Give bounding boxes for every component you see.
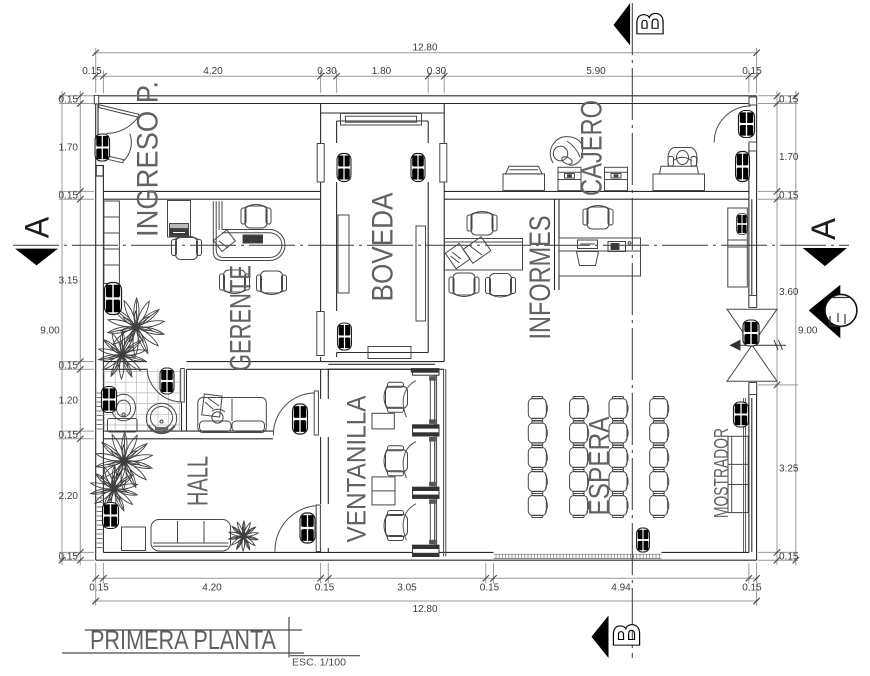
section line A: [13, 244, 849, 246]
svg-text:A: A: [19, 216, 57, 238]
teller counter vertical rails: [435, 369, 446, 557]
hall plant 2: [91, 465, 138, 513]
svg-text:3.25: 3.25: [779, 464, 799, 475]
cajero safe: [503, 166, 545, 190]
vault outer walls: [321, 104, 445, 362]
svg-text:0.15: 0.15: [59, 95, 79, 106]
teller counter blocks: [411, 369, 439, 557]
svg-text:CAJERO: CAJERO: [576, 100, 609, 196]
svg-text:ESPERA: ESPERA: [584, 416, 616, 516]
toilet: [108, 394, 138, 432]
hall plant right of sofa: [229, 521, 258, 551]
mostrador top symbol: [734, 402, 749, 427]
svg-text:0.15: 0.15: [59, 190, 79, 201]
svg-text:0.30: 0.30: [427, 66, 447, 77]
bowtie door (double swing): [727, 309, 777, 381]
hall right door symbol: [300, 513, 315, 543]
bowtie center symbol: [743, 320, 759, 346]
svg-text:0.15: 0.15: [315, 583, 335, 594]
teller privacy wings: [403, 381, 416, 541]
right wall cabinet: [728, 208, 748, 287]
svg-text:4.94: 4.94: [611, 583, 631, 594]
svg-text:0.15: 0.15: [480, 583, 500, 594]
dimension line right chain + overall: [777, 91, 796, 565]
wall: informes partition: [555, 199, 560, 290]
vault shelf right: [416, 226, 426, 321]
wall: gerente bottom / bathroom top (door gap 147-182): [103, 362, 444, 370]
svg-text:0.15: 0.15: [779, 95, 799, 106]
teller chairs: [384, 382, 408, 412]
section marker B bottom: [592, 616, 647, 659]
svg-text:0.15: 0.15: [59, 361, 79, 372]
svg-text:HALL: HALL: [182, 456, 214, 506]
wall: hall/ventanilla vertical (gaps 399-437, 504-548): [321, 369, 329, 552]
svg-text:1.70: 1.70: [59, 143, 79, 154]
right wall door jambs top: [749, 97, 757, 151]
entrance door leaf lower diagonal: [101, 134, 131, 163]
svg-text:INGRESO P.: INGRESO P.: [132, 81, 165, 237]
svg-text:2.20: 2.20: [59, 491, 79, 502]
dimension extension lines top: [96, 48, 757, 93]
mostrador glazing line: [744, 398, 746, 552]
cabinet symbol: [737, 213, 748, 234]
svg-text:VENTANILLA: VENTANILLA: [342, 396, 372, 543]
svg-text:1.80: 1.80: [372, 66, 392, 77]
svg-text:1.70: 1.70: [779, 152, 799, 163]
dimension line left chain + overall: [62, 91, 80, 565]
gerente L-desk: [213, 201, 285, 260]
wall: left exterior (entrance gap 104-165): [96, 96, 104, 560]
vault shelf left: [338, 215, 349, 293]
svg-text:INFORMES: INFORMES: [524, 216, 557, 340]
cajero cash desk 2: [605, 167, 628, 190]
bathroom left wall symbol: [102, 386, 117, 412]
ventanilla top wall: [328, 364, 435, 369]
dimension line bottom chain: [94, 578, 759, 601]
bowtie jambs: [749, 296, 757, 395]
wall: below cajero strip (right segment): [444, 191, 749, 199]
informes guest chair 1: [449, 273, 479, 297]
informes chair (behind desk): [467, 212, 497, 236]
wall: bathroom right partition: [182, 369, 187, 431]
svg-text:5.90: 5.90: [586, 66, 606, 77]
informes right workstation chair: [583, 206, 613, 230]
bowtie arrow: [731, 340, 787, 350]
svg-text:0.30: 0.30: [317, 66, 337, 77]
vault shelf bottom: [368, 347, 411, 359]
gerente executive chair: [241, 205, 271, 229]
gerente wall desk with printer: [168, 201, 191, 238]
cajero right desk with person: [653, 148, 705, 191]
espera B symbol: [636, 528, 649, 552]
bathroom tile grid: [103, 369, 181, 431]
svg-text:A: A: [805, 218, 843, 240]
svg-text:BOVEDA: BOVEDA: [367, 193, 400, 302]
wall: top exterior: [95, 96, 757, 104]
svg-text:1.20: 1.20: [59, 395, 79, 406]
wall: below top strip (left segment): [103, 191, 320, 199]
entrance door leaf upper diagonal: [99, 105, 140, 134]
bathroom door leaf and swing: [147, 369, 184, 403]
sitting sofa with person: [198, 394, 266, 433]
teller window glass panes: [430, 377, 436, 544]
svg-text:ESC. 1/100: ESC. 1/100: [292, 657, 346, 669]
svg-text:0.15: 0.15: [59, 551, 79, 562]
vault left bottom symbol: [338, 323, 352, 350]
svg-text:12.80: 12.80: [412, 43, 437, 54]
informes right desk: [559, 238, 641, 276]
informes guest chair 2: [486, 274, 516, 298]
svg-text:12.80: 12.80: [412, 604, 437, 615]
svg-text:0.15: 0.15: [742, 583, 762, 594]
wall: bottom glass band with hatch: [494, 554, 662, 558]
wall: bathroom bottom / hall top (door gap 273-318): [103, 431, 273, 439]
svg-text:0.15: 0.15: [89, 583, 109, 594]
corridor door leaf + swing: [273, 391, 318, 435]
dimension tick marks top: [93, 50, 760, 80]
svg-text:B: B: [606, 624, 647, 647]
entrance door symbol: [95, 134, 110, 161]
svg-text:4.20: 4.20: [202, 583, 222, 594]
cajero cash desk 1: [558, 167, 581, 190]
gerente guest chair 1: [220, 270, 250, 294]
svg-text:4.20: 4.20: [203, 66, 223, 77]
cajero teller person: [550, 137, 583, 166]
corridor door symbol: [293, 404, 308, 434]
informes desk: [445, 237, 523, 270]
wall: bottom exterior left solid part: [96, 552, 757, 560]
gerente bookshelf: [104, 201, 120, 284]
dimension extension lines right: [758, 96, 798, 560]
title block lines: [62, 617, 360, 658]
sink: [146, 403, 176, 433]
right wall window symbol: [736, 152, 750, 182]
teller side tables: [372, 413, 395, 505]
section marker A left: [15, 216, 58, 265]
espera waiting chairs grid: [528, 397, 669, 518]
svg-text:0.15: 0.15: [742, 66, 762, 77]
gerente plant 2: [99, 331, 146, 379]
hall plant 1: [96, 432, 153, 490]
svg-text:PRIMERA PLANTA: PRIMERA PLANTA: [90, 625, 276, 655]
gerente plant 1: [108, 298, 165, 356]
svg-text:0.15: 0.15: [59, 430, 79, 441]
hall left wall symbol: [102, 502, 118, 528]
svg-text:3.05: 3.05: [397, 583, 417, 594]
vault door jambs: [317, 144, 447, 356]
svg-text:B: B: [629, 13, 670, 36]
section marker B top: [614, 3, 671, 45]
hall door to ventanilla leaf + swing: [275, 505, 320, 552]
elevation marker right: [809, 285, 857, 339]
hall side table: [122, 527, 146, 551]
svg-text:GERENTE: GERENTE: [225, 265, 258, 371]
wall: right exterior (gaps: door 105-143, bowtie 307-384): [749, 96, 757, 560]
right wall top door swing: [714, 106, 751, 143]
gerente chair at wall desk: [172, 236, 202, 260]
svg-text:MOSTRADOR: MOSTRADOR: [711, 428, 733, 518]
section line B: [631, 3, 633, 658]
svg-text:0.15: 0.15: [82, 66, 102, 77]
wall: left wall rung hatch (lower): [97, 393, 103, 548]
vault right top symbol: [411, 154, 425, 182]
mostrador counter: [728, 436, 748, 512]
svg-text:3.60: 3.60: [779, 287, 799, 298]
dimension extension lines bottom: [96, 563, 757, 606]
vault niche top: [341, 114, 422, 126]
gerente guest chair 2: [257, 271, 287, 295]
svg-text:3.15: 3.15: [59, 276, 79, 287]
entrance top-wall jamb: [94, 95, 98, 104]
dimension extension lines left: [59, 96, 94, 560]
bathroom door symbol: [160, 368, 174, 394]
gerente left wall symbol: [105, 283, 122, 315]
dimension line top overall 12.80: [94, 53, 759, 76]
right wall top door symbol: [738, 111, 754, 138]
hall sofa 3-seat: [151, 520, 231, 552]
vault left top symbol: [337, 154, 351, 182]
section marker A right: [803, 218, 847, 266]
svg-text:0.15: 0.15: [779, 190, 799, 201]
svg-text:9.00: 9.00: [40, 326, 60, 337]
svg-text:9.00: 9.00: [798, 326, 818, 337]
svg-text:0.15: 0.15: [779, 551, 799, 562]
